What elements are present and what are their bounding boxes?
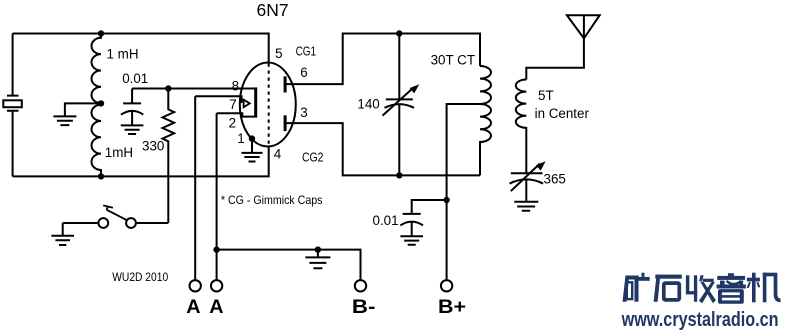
svg-text:7: 7: [229, 97, 236, 112]
svg-text:365: 365: [544, 172, 566, 187]
svg-text:in Center: in Center: [535, 106, 590, 121]
svg-text:6: 6: [300, 65, 307, 80]
svg-text:30T CT: 30T CT: [431, 52, 475, 67]
svg-text:1: 1: [237, 131, 244, 146]
svg-text:1mH: 1mH: [105, 145, 133, 160]
svg-text:8: 8: [232, 79, 239, 94]
svg-text:B+: B+: [438, 296, 466, 318]
svg-text:A: A: [209, 296, 223, 318]
svg-text:0.01: 0.01: [373, 213, 399, 228]
svg-text:330: 330: [142, 138, 164, 153]
svg-text:0.01: 0.01: [122, 71, 148, 86]
svg-text:5: 5: [275, 46, 282, 61]
svg-text:1 mH: 1 mH: [107, 47, 139, 62]
svg-text:6N7: 6N7: [257, 0, 289, 20]
svg-text:2: 2: [229, 115, 236, 130]
svg-text:3: 3: [300, 105, 307, 120]
svg-text:CG2: CG2: [302, 151, 324, 165]
svg-text:A: A: [186, 296, 200, 318]
svg-text:WU2D 2010: WU2D 2010: [112, 270, 168, 284]
svg-text:4: 4: [274, 147, 282, 162]
svg-text:5T: 5T: [538, 88, 554, 103]
svg-text:www.crystalradio.cn: www.crystalradio.cn: [621, 309, 779, 331]
svg-text:B-: B-: [352, 296, 376, 318]
svg-text:CG1: CG1: [296, 45, 317, 59]
svg-text:* CG - Gimmick Caps: * CG - Gimmick Caps: [221, 193, 323, 207]
svg-text:140: 140: [357, 97, 379, 112]
